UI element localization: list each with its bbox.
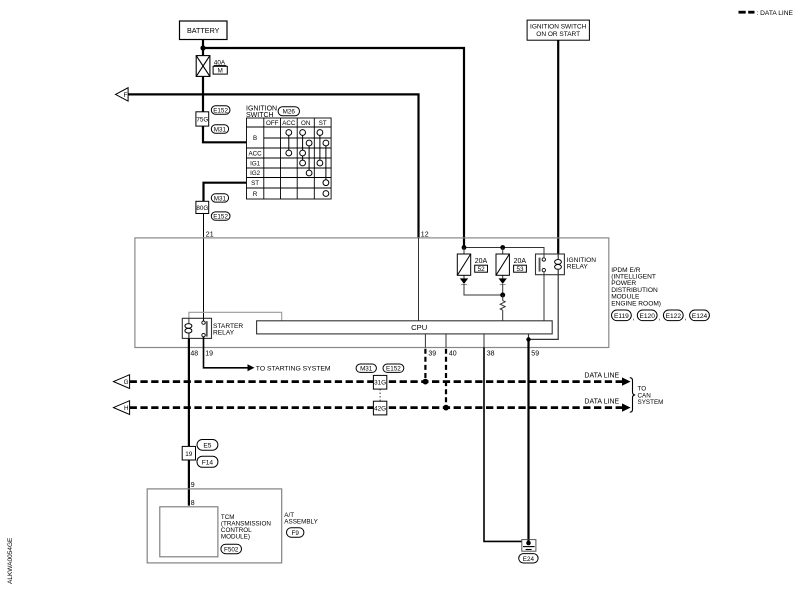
svg-text:75G: 75G [196, 117, 208, 124]
off-page arrow H [114, 401, 130, 415]
starter relay [182, 318, 243, 338]
pin labels under IPDM [190, 351, 539, 358]
svg-text:ENGINE ROOM): ENGINE ROOM) [611, 300, 661, 307]
svg-text:DATA LINE: DATA LINE [584, 398, 619, 405]
wire: pin 40 drop (data) [445, 334, 447, 348]
wire: pin 12 internal to CPU [418, 238, 420, 321]
ground E24 [522, 540, 536, 552]
battery BATTERY [180, 21, 228, 40]
A/T assembly name [284, 512, 318, 525]
svg-text:E24: E24 [523, 556, 535, 563]
svg-text:,: , [658, 315, 660, 322]
svg-text:H: H [124, 405, 129, 412]
svg-text:OFF: OFF [266, 120, 279, 127]
svg-text:G: G [124, 379, 129, 386]
svg-text:E152: E152 [213, 107, 228, 114]
connector oval F9 [287, 528, 304, 538]
svg-text:IGNITION SWITCH: IGNITION SWITCH [530, 23, 587, 30]
svg-text:M26: M26 [283, 109, 296, 116]
svg-text:F9: F9 [292, 530, 300, 537]
svg-text:8: 8 [191, 500, 195, 507]
svg-text:: DATA LINE: : DATA LINE [757, 10, 794, 17]
wire: fuse 53 branch and diode [502, 248, 504, 279]
svg-text:E124: E124 [692, 313, 708, 320]
svg-text:DATA LINE: DATA LINE [584, 372, 619, 379]
svg-text:ALKWA0054GE: ALKWA0054GE [7, 537, 14, 584]
wire: relay coil to pin 59 node [529, 270, 559, 340]
svg-text:IG1: IG1 [250, 160, 261, 167]
IPDM connector ovals E119 E120 E122 E124 [612, 310, 710, 322]
wire: pin 59 ground run [527, 339, 529, 539]
ignition switch title and M26 [246, 106, 300, 119]
svg-text:ON OR START: ON OR START [536, 31, 580, 38]
svg-text:E120: E120 [639, 313, 655, 320]
svg-text:80G: 80G [196, 205, 208, 212]
wire: fuse 52 branch and diode [463, 248, 465, 279]
table contacts (circles) [286, 130, 329, 197]
svg-text:,: , [633, 315, 635, 322]
connector 31G on data line 1 [373, 375, 386, 389]
svg-text:R: R [253, 191, 258, 198]
connector 19 with E5 / F14 [182, 440, 218, 468]
off-page arrow F and wire to pin 12 [116, 88, 419, 238]
wire: relay contact to CPU [543, 272, 545, 321]
wire: battery trunk down and right to fuse 52 drop [202, 40, 204, 129]
svg-text:M31: M31 [214, 195, 227, 202]
wire: internal bus from battery drop to relay contact [464, 248, 544, 260]
svg-text:TO: TO [638, 385, 647, 392]
ignition switch table [247, 118, 332, 199]
svg-text:ON: ON [301, 120, 310, 127]
svg-text:RELAY: RELAY [213, 330, 235, 337]
svg-text:E119: E119 [614, 313, 629, 320]
svg-text:F14: F14 [202, 460, 214, 467]
svg-text:19: 19 [205, 351, 213, 358]
svg-text:53: 53 [516, 266, 524, 273]
ignition relay [536, 254, 597, 275]
legend: data line sample [739, 10, 794, 17]
arrow to starting system [248, 364, 255, 371]
svg-text:E122: E122 [666, 313, 682, 320]
svg-text:E152: E152 [386, 366, 401, 373]
svg-text:ACC: ACC [249, 150, 263, 157]
data line 1 (CAN-H) [130, 380, 623, 383]
junction at fuse 53 top [500, 245, 505, 250]
svg-text:52: 52 [478, 266, 486, 273]
svg-text:ST: ST [251, 180, 259, 187]
wire: pin 21 drop to starter relay switch [203, 214, 205, 323]
svg-text:F502: F502 [224, 546, 239, 553]
wire: ignition switch feed to ignition relay coil [557, 40, 559, 254]
svg-text:42G: 42G [374, 405, 386, 412]
wire: ignition switch ST terminal to 80G [204, 183, 247, 202]
svg-text:ACC: ACC [282, 120, 296, 127]
junction at fuse 52 top [462, 245, 467, 250]
diode under fuse 53 [499, 278, 507, 295]
svg-text:20A: 20A [475, 258, 488, 265]
A/T assembly box [147, 489, 282, 563]
resistor to CPU [500, 295, 505, 321]
wire: pin 38 ground run [483, 334, 485, 348]
svg-text:31G: 31G [374, 380, 386, 387]
wire: starter relay coil to pin 48 down to TCM [188, 333, 190, 338]
svg-text:39: 39 [428, 351, 436, 358]
svg-text:B: B [253, 135, 257, 142]
fuse 20A 53 [496, 254, 526, 275]
wire: 75G to ignition switch B terminal [203, 126, 247, 142]
off-page arrow G [114, 375, 130, 389]
svg-text:MODULE): MODULE) [221, 533, 250, 540]
connector ovals M31 E152 above 31G [356, 364, 376, 372]
svg-text:M31: M31 [214, 126, 227, 133]
fusible link 40A M [196, 56, 227, 77]
svg-text:19: 19 [185, 451, 193, 458]
svg-text:59: 59 [531, 351, 539, 358]
svg-text:20A: 20A [514, 258, 527, 265]
svg-text:F: F [123, 92, 127, 99]
svg-text:CPU: CPU [411, 323, 427, 332]
connector oval F502 [221, 544, 242, 554]
junction pin40 on data line 2 [443, 405, 449, 411]
svg-text:M: M [218, 68, 223, 75]
data line 2 (CAN-L) [130, 406, 623, 409]
junction pin 59 node [526, 337, 530, 341]
svg-text:RELAY: RELAY [567, 263, 589, 270]
svg-text:ASSEMBLY: ASSEMBLY [284, 519, 318, 526]
svg-text:TO STARTING SYSTEM: TO STARTING SYSTEM [256, 365, 331, 372]
fuse 20A 52 [457, 254, 487, 275]
IPDM E/R enclosure [135, 238, 609, 348]
svg-text:M31: M31 [360, 366, 373, 373]
diode under fuse 52 [460, 278, 503, 295]
table contact link wires [289, 133, 326, 183]
ignition switch ON OR START feed box [527, 20, 589, 40]
connector 75G with E152 / M31 [196, 106, 230, 134]
svg-text:E152: E152 [213, 214, 228, 221]
svg-text:E5: E5 [203, 443, 211, 450]
TCM name block [221, 514, 271, 540]
connector 80G with M31 / E152 [196, 194, 230, 221]
svg-text:ST: ST [319, 120, 327, 127]
svg-text:IG2: IG2 [250, 170, 261, 177]
svg-text:38: 38 [487, 351, 495, 358]
TCM box [160, 507, 218, 557]
connector 42G on data line 2 [373, 401, 386, 415]
wire: starter relay switch to pin 19 / to starting system [204, 337, 248, 368]
svg-text:40: 40 [449, 351, 457, 358]
IPDM name block [611, 267, 661, 308]
wire: CPU control to starter relay coil [189, 312, 282, 321]
svg-text:SYSTEM: SYSTEM [638, 399, 664, 406]
brace to CAN system [630, 378, 635, 413]
svg-text:,: , [684, 315, 686, 322]
dotted link 31G-42G [379, 389, 381, 401]
junction at battery output [200, 45, 205, 50]
svg-text:9: 9 [191, 482, 195, 489]
wire: pin 39 drop (data) [424, 334, 426, 348]
junction of diode outputs [500, 293, 505, 298]
CPU [257, 321, 553, 334]
svg-text:BATTERY: BATTERY [187, 26, 220, 35]
junction pin39 on data line 1 [423, 379, 429, 385]
svg-text:48: 48 [190, 351, 198, 358]
